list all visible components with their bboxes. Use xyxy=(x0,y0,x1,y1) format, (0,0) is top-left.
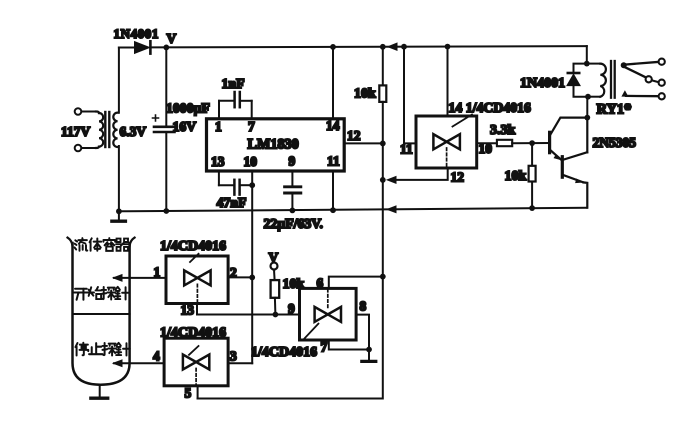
ground (U2b) xyxy=(362,350,376,362)
node pin6 at rail xyxy=(380,274,386,280)
wire U3a pin2 to node xyxy=(228,276,252,278)
wire U3b pin3 to node xyxy=(228,362,252,364)
node bus at R3 xyxy=(529,205,535,211)
svg-text:6: 6 xyxy=(317,276,324,291)
wire secondary bottom to ground bus xyxy=(118,146,120,211)
svg-text:1/4CD4016: 1/4CD4016 xyxy=(160,239,226,254)
svg-text:13: 13 xyxy=(211,154,225,169)
wire U2b pin8 to ground xyxy=(356,315,369,350)
node rail at pin12 wire xyxy=(380,177,386,183)
svg-text:1: 1 xyxy=(154,265,161,280)
svg-text:8: 8 xyxy=(360,299,367,314)
svg-text:6.3V: 6.3V xyxy=(120,124,147,139)
arrow on bus (emitter return) xyxy=(386,205,397,213)
wire U3a pin13 to U2b pin9 xyxy=(197,304,300,315)
svg-text:11: 11 xyxy=(400,142,413,157)
svg-text:7: 7 xyxy=(321,340,328,355)
wire U2b pin7 to ground xyxy=(329,340,369,350)
wire secondary top to diode xyxy=(118,48,120,113)
svg-text:16V: 16V xyxy=(173,119,197,134)
node R1/pin12 xyxy=(380,141,386,147)
resistor R4 10k xyxy=(271,270,280,315)
svg-text:LM1830: LM1830 xyxy=(248,137,299,153)
resistor R3 10k xyxy=(529,143,536,208)
svg-text:7: 7 xyxy=(248,119,255,134)
svg-text:1/4CD4016: 1/4CD4016 xyxy=(160,326,226,341)
wire pin12 LM1830 to node xyxy=(344,142,383,144)
svg-text:1N4001: 1N4001 xyxy=(520,76,565,91)
svg-text:10: 10 xyxy=(244,154,258,169)
svg-text:117V: 117V xyxy=(61,124,91,139)
svg-text:12: 12 xyxy=(451,170,465,185)
capacitor C3 47nF xyxy=(219,171,252,195)
diode D2 1N4001 (relay clamp) xyxy=(567,64,588,97)
wire pin11 LM1830 to ground bus xyxy=(332,171,334,210)
svg-text:14 1/4CD4016: 14 1/4CD4016 xyxy=(449,100,531,115)
analog switch U3a 1/4CD4016 (pins 1,2,13) xyxy=(166,254,228,304)
wire relay bottom to Q1 collector xyxy=(586,97,588,118)
node pin10 / C3 xyxy=(249,182,255,188)
capacitor C2 1nF xyxy=(219,92,252,119)
svg-text:1/4CD4016: 1/4CD4016 xyxy=(251,345,317,360)
node top rail at C1 xyxy=(163,45,169,51)
node relay top xyxy=(584,61,590,67)
svg-text:13: 13 xyxy=(181,303,195,318)
wire stop probe to U3b pin4 (arrow) xyxy=(112,359,164,367)
terminal V xyxy=(271,263,278,270)
node top rail at CD4016a pin14 drop xyxy=(445,44,451,50)
node Q1 collector xyxy=(584,115,590,121)
svg-text:4: 4 xyxy=(153,349,160,364)
analog switch U2b 1/4CD4016 (pins 9,8,6,7) xyxy=(300,288,357,340)
wire U3b pin5 to bottom rail xyxy=(197,386,199,399)
relay contacts xyxy=(621,59,665,100)
diode D1 1N4001 xyxy=(119,41,150,53)
svg-text:9: 9 xyxy=(289,154,296,169)
node top rail at pin14 LM1830 xyxy=(330,44,336,50)
svg-text:1nF: 1nF xyxy=(222,76,245,91)
capacitor C1 1000uF/16V xyxy=(153,47,175,211)
svg-text:10k: 10k xyxy=(354,87,376,102)
node pin7/pin8 xyxy=(366,347,372,353)
svg-text:12: 12 xyxy=(347,128,361,143)
label kai-shi-tan-zhen xyxy=(74,287,129,300)
wire U2a pin10 to R2 xyxy=(477,142,497,144)
svg-text:14: 14 xyxy=(326,118,340,133)
analog switch U3b 1/4CD4016 (pins 4,3,5) xyxy=(164,338,228,386)
wire top rail xyxy=(152,46,587,47)
capacitor C4 22uF/63V xyxy=(285,171,301,210)
wire CD4016a pin14 supply drop xyxy=(447,47,449,116)
svg-text:2N5305: 2N5305 xyxy=(593,135,637,150)
svg-text:3.3k: 3.3k xyxy=(490,123,516,138)
resistor R1 10k xyxy=(379,47,386,102)
node top rail at CD4016a pin11 drop xyxy=(401,44,407,50)
resistor R2 3.3k xyxy=(497,140,549,146)
wire CD4016a pin11 supply drop xyxy=(404,47,416,144)
svg-text:47nF: 47nF xyxy=(217,195,247,210)
svg-text:11: 11 xyxy=(327,154,340,169)
ground (bottom left) xyxy=(112,211,126,221)
svg-text:1N4001: 1N4001 xyxy=(114,26,160,41)
wire pin10 LM1830 down to switch a2 xyxy=(251,171,253,277)
wire node pin2 down to pin3 xyxy=(251,277,253,363)
arrow on top rail xyxy=(387,42,398,51)
svg-text:RY1*: RY1* xyxy=(597,102,632,118)
svg-text:10k: 10k xyxy=(505,169,527,184)
svg-text:1: 1 xyxy=(215,119,222,134)
node relay bottom xyxy=(585,94,591,100)
transformer T1 xyxy=(75,108,118,151)
liquid level line xyxy=(73,313,130,315)
svg-text:22µF/63V.: 22µF/63V. xyxy=(264,216,323,231)
wire ground bus xyxy=(119,208,587,212)
svg-text:9: 9 xyxy=(288,301,295,316)
wire rail corner to relay xyxy=(586,46,588,64)
node top rail at R1 xyxy=(380,44,386,50)
relay coil RY1 xyxy=(587,61,615,98)
node C4 at bus xyxy=(290,208,296,214)
node base/R3 xyxy=(529,140,535,146)
svg-text:1000µF: 1000µF xyxy=(166,101,210,116)
analog switch U2a 1/4CD4016 (pins 11,10,12,14) xyxy=(416,115,477,169)
node pin2/pin10/pin3 xyxy=(249,275,255,281)
label liu-ti-rong-qi xyxy=(75,238,130,251)
node bus left corner xyxy=(116,208,122,214)
label ting-zhi-tan-zhen xyxy=(75,343,129,356)
wire start probe to U3a pin1 (arrow) xyxy=(112,274,166,282)
node pin11 at bus xyxy=(330,207,336,213)
svg-text:5: 5 xyxy=(185,386,192,401)
ground (container) xyxy=(91,385,108,399)
svg-text:V: V xyxy=(167,31,177,46)
transistor Q1 2N5305 (darlington) xyxy=(550,118,588,208)
wire U2b pin6 to rail xyxy=(329,277,383,289)
node bus at C1 xyxy=(163,208,169,214)
fluid container xyxy=(68,238,135,385)
node R4 bottom xyxy=(273,312,279,318)
wire pin14 LM1830 to rail xyxy=(332,47,334,119)
wire mid rail x383 (R1 to bottom corner) xyxy=(198,102,383,399)
op-amp U1 LM1830 xyxy=(207,118,345,171)
wire U2a pin12 with arrow to node xyxy=(396,168,448,180)
svg-text:3: 3 xyxy=(230,349,237,364)
